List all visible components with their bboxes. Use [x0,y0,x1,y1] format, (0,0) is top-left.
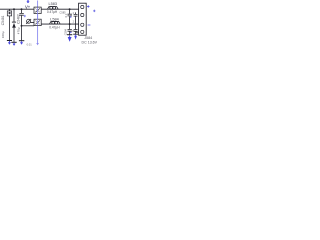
polarity + cap C586 (blue) [70,32,72,34]
svg-text:L583: L583 [49,2,57,6]
inductor L584 [49,21,60,24]
svg-text:L584: L584 [50,18,58,22]
svg-text:C5481: C5481 [1,15,5,25]
svg-text:C584: C584 [64,28,68,35]
wire lower rail [31,23,79,25]
chassis symbol (circle-slash) [26,19,31,24]
wire C2482 to box2 lower pin [22,25,35,27]
svg-text:470µ: 470µ [16,27,20,34]
minus mark pin3 (blue) [88,24,91,26]
star marker (blue) [27,0,30,3]
svg-text:2: 2 [73,19,75,23]
diode D5481 [12,9,16,42]
blue highlight line [37,1,39,44]
fuse box F5802 (bottom) [34,19,41,25]
svg-text:0.1: 0.1 [64,13,68,17]
capacitor C587 [74,12,79,34]
node junction dots [13,8,71,25]
plus mark pin1 (blue) [87,5,90,8]
svg-text:V+: V+ [25,4,31,9]
polarity + (blue) [24,15,26,17]
pin 3 [81,23,84,26]
polarity + cap C585 (blue) [70,16,72,18]
ground (C587) [73,33,78,35]
capacitor C5481 box [7,9,11,40]
pin 1 [81,5,84,8]
node dot C2482 branch [21,25,23,27]
svg-text:C2482: C2482 [16,14,20,24]
plus mark 2 (blue) [93,10,96,13]
ground (C586) [67,34,72,36]
fuse box F5801 (top) [34,7,41,13]
blue line over boxes [37,7,39,25]
inductor L583 [47,6,58,9]
pin 4 [81,30,84,33]
pin 2 [81,13,84,16]
svg-text:100µ: 100µ [1,31,5,38]
capacitor C585 [68,9,72,24]
ground (diode) [11,41,16,43]
capacitor C2482 [19,9,23,40]
connector J584 body [79,3,87,35]
svg-text:0.47µH: 0.47µH [49,25,60,29]
ground (C5481) [7,40,12,42]
wire V+ rail top [0,8,79,10]
capacitor C586 [68,24,72,35]
ground (C2482) [19,40,24,42]
svg-text:DC 13.6V: DC 13.6V [82,40,98,44]
svg-text:0.47µH: 0.47µH [47,10,58,14]
svg-text:0.01: 0.01 [27,42,33,46]
